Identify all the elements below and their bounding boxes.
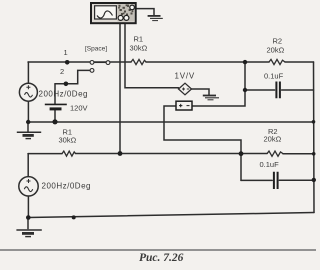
switch S1 throw 2 contact <box>90 69 94 73</box>
svg-text:2: 2 <box>60 67 64 76</box>
resistor R2 upper 20k <box>269 59 285 64</box>
svg-text:20kΩ: 20kΩ <box>267 46 285 55</box>
wire source V1 top lead <box>27 62 29 83</box>
capacitor C1 upper 0.1uF plates <box>276 82 280 99</box>
wire oscilloscope ground lead <box>136 9 154 16</box>
svg-text:[Space]: [Space] <box>85 46 107 53</box>
wire battery bottom lead <box>54 110 56 122</box>
wire right vertical <box>313 62 316 213</box>
wire VCVS control left pin loop <box>164 106 241 180</box>
wire lower capacitor row <box>241 179 314 181</box>
node dot stray bottom <box>72 215 76 219</box>
wire battery top lead <box>54 84 56 104</box>
svg-text:Рис. 7.26: Рис. 7.26 <box>139 252 184 264</box>
node dot source V2 at bottom <box>26 215 31 220</box>
oscilloscope XSC1 <box>91 3 136 23</box>
svg-text:30kΩ: 30kΩ <box>130 44 148 53</box>
ground GND2 VCVS <box>203 96 219 100</box>
node dot scope A at lower row <box>118 151 123 156</box>
switch S1 throw 1 contact <box>90 61 94 65</box>
svg-text:120V: 120V <box>70 104 88 113</box>
wire VCVS control right pin riser <box>192 62 245 106</box>
node dot 2 battery branch <box>64 82 69 87</box>
switch S1 common contact <box>106 61 110 65</box>
node dot control loop at lower row <box>239 151 244 156</box>
resistor R2 lower 20k <box>267 151 283 156</box>
wire upper capacitor row <box>245 89 314 91</box>
node dot riser at top bus <box>243 60 247 64</box>
node dot right vertical lower row <box>312 152 316 156</box>
svg-text:0.1uF: 0.1uF <box>264 72 284 81</box>
wire source V1 bottom lead <box>27 101 29 122</box>
node dot battery at bus <box>52 119 57 124</box>
svg-text:1: 1 <box>64 48 68 57</box>
wire top bus <box>28 61 314 63</box>
wire bottom <box>28 213 314 218</box>
svg-text:30kΩ: 30kΩ <box>59 136 77 145</box>
wire oscilloscope channel A probe <box>119 21 121 154</box>
caption rule <box>0 249 316 251</box>
node dot riser at cap row <box>243 88 247 92</box>
ground GND3 source V1 <box>17 122 41 139</box>
node dot 1 top <box>65 60 70 65</box>
svg-text:R2: R2 <box>273 37 283 46</box>
node dot right vertical bus <box>312 120 316 124</box>
op-amp VCVS U1 control box <box>176 101 192 110</box>
svg-text:200Hz/0Deg: 200Hz/0Deg <box>39 90 88 99</box>
svg-text:200Hz/0Deg: 200Hz/0Deg <box>42 182 91 191</box>
wire switch throw 2 branch <box>55 70 90 83</box>
wire lower resistor row <box>28 153 314 155</box>
wire source V2 top lead <box>27 154 29 177</box>
battery V3 120V <box>45 104 67 109</box>
ground GND1 oscilloscope <box>148 16 163 21</box>
wire oscilloscope channel B probe <box>125 21 179 88</box>
ground GND4 bottom <box>16 218 41 237</box>
wire VCVS output to ground <box>192 89 210 95</box>
svg-text:0.1uF: 0.1uF <box>260 160 280 169</box>
capacitor C2 lower 0.1uF plates <box>274 172 278 189</box>
wire middle bus <box>28 121 314 123</box>
node dot source V1 at bus <box>26 120 30 124</box>
resistor R1 lower 30k <box>62 151 76 156</box>
op-amp VCVS U1 diamond <box>179 83 192 95</box>
wire source V2 bottom lead <box>27 196 29 218</box>
node dot right vertical lower cap <box>312 178 316 182</box>
svg-text:R1: R1 <box>134 35 144 44</box>
source V1 AC 200Hz circle <box>19 83 37 101</box>
resistor R1 upper 30k <box>131 59 146 64</box>
switch S1 lever <box>94 61 106 63</box>
source V2 AC 200Hz circle <box>19 177 38 196</box>
svg-text:1V/V: 1V/V <box>175 72 196 81</box>
svg-text:20kΩ: 20kΩ <box>264 135 282 144</box>
